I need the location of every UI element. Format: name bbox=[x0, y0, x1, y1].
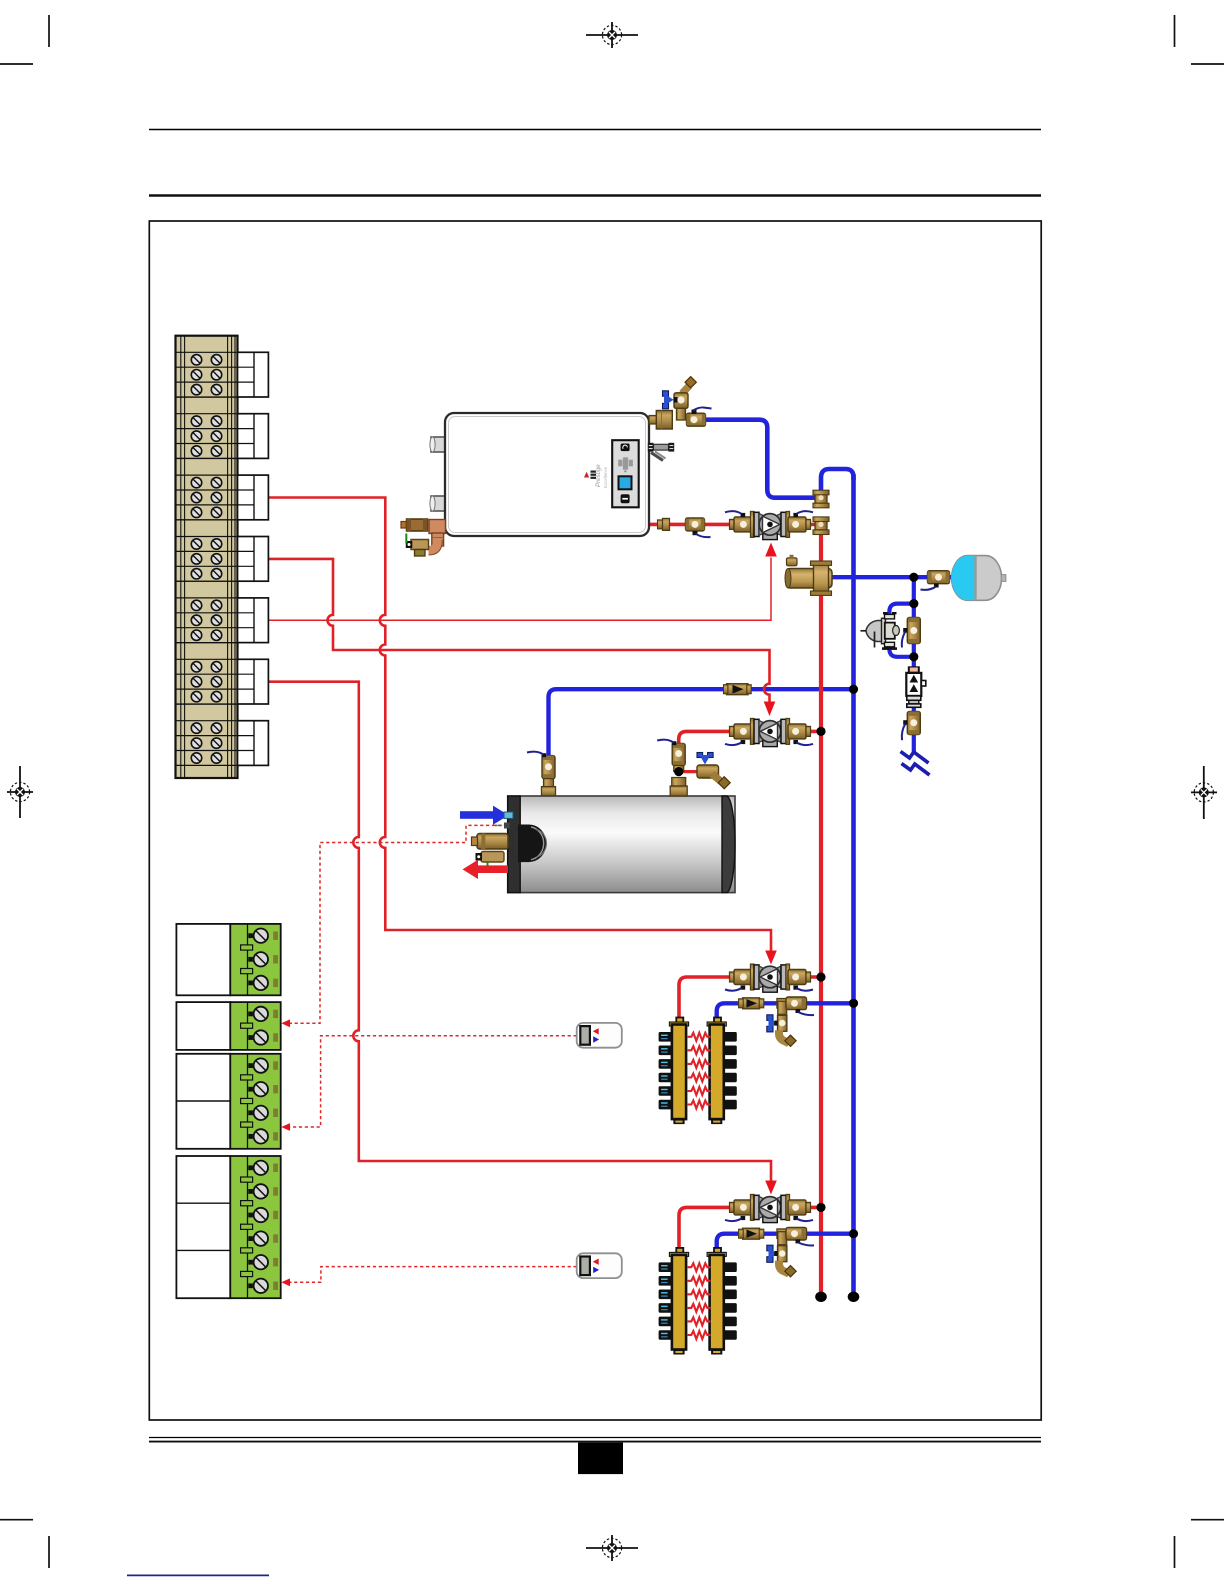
wire control C: zone panel group5 to boiler pump P1 bbox=[268, 558, 771, 621]
wire blue cold main vertical bbox=[851, 474, 856, 1292]
thermostat T1 bbox=[577, 1023, 622, 1048]
pump P4 right isolation valve bbox=[788, 1200, 813, 1221]
zone panel terminal group 2 rows bbox=[176, 397, 238, 458]
tank aquastat sensor fitting bbox=[495, 823, 510, 829]
zone 2 return check valve bbox=[739, 1228, 764, 1239]
zone panel group 5 wiring connector box bbox=[238, 598, 269, 643]
wire blue pipe: cold main to indirect tank inlet bbox=[549, 689, 854, 757]
wire blue pipe: air separator to expansion tank bbox=[832, 575, 951, 579]
footer thin rule bbox=[149, 1437, 1041, 1439]
wire control D: zone panel group6 to zone2 pump P4 bbox=[268, 682, 771, 1182]
tank inspection port dome bbox=[518, 825, 547, 863]
wire control A: zone panel group3 to zone1 pump P3 bbox=[268, 498, 771, 952]
fill line ball valve upper bbox=[902, 618, 920, 648]
boiler left stub pipe upper bbox=[430, 437, 447, 452]
zone 2 radiant return manifold bbox=[707, 1248, 737, 1355]
wire blue pipe: riser hump from tee A to cold main bbox=[821, 469, 854, 498]
crop mark top-left horizontal bbox=[0, 63, 33, 65]
wire blue pipe: boiler DHW top outlet to tee A bbox=[705, 420, 821, 498]
boiler supply union bbox=[658, 518, 670, 530]
boiler left stub pipe lower bbox=[430, 496, 447, 511]
crop mark bottom-left vertical bbox=[48, 1536, 50, 1568]
wire blue zone1 return from manifold to cold main bbox=[717, 1003, 854, 1020]
tank boiler drain faucet bbox=[697, 753, 730, 789]
indirect water heater tank bbox=[508, 796, 735, 893]
main diagram border box bbox=[149, 221, 1041, 1420]
thermostat wiring terminal block 1 white box bbox=[176, 924, 230, 995]
arrow into boiler pump P1 bbox=[765, 543, 777, 557]
zone panel terminal group 6 rows bbox=[176, 643, 238, 704]
wire red pump P2 inlet piping from tank hot port bbox=[679, 731, 737, 744]
node: fill bypass lower tee bbox=[909, 652, 918, 661]
backflow preventer bbox=[906, 666, 926, 707]
wire red boiler supply from boiler to pump P1 bbox=[649, 523, 754, 527]
footer navy rule bottom-left bbox=[127, 1574, 269, 1576]
thermostat wiring terminal block 3 white box bbox=[176, 1054, 230, 1149]
wire dashed: thermostat T2 to zone panel bbox=[290, 1267, 577, 1283]
thermostat wiring terminal block 2 white box bbox=[176, 1002, 230, 1050]
boiler gas connection pipe bbox=[648, 443, 674, 461]
zone 1 radiant supply manifold bbox=[659, 1018, 689, 1125]
header thick rule bbox=[149, 194, 1041, 197]
zone 2 radiant supply manifold bbox=[659, 1248, 689, 1355]
thermostat T2 bbox=[577, 1253, 622, 1278]
zone 2 purge drain valve bbox=[767, 1245, 796, 1277]
wire red tank drain stub bbox=[679, 770, 700, 773]
pump P1 circulator body bbox=[750, 511, 789, 539]
thermostat wiring terminal block 2 green connector bbox=[230, 1002, 280, 1050]
crop mark bottom-left horizontal bbox=[0, 1519, 33, 1521]
zone panel terminal group 4 rows bbox=[176, 520, 238, 581]
svg-text:Prestige: Prestige bbox=[595, 464, 602, 487]
tank drain valve bbox=[476, 852, 505, 871]
wire control B: zone panel group4 to DHW pump P2 bbox=[268, 559, 769, 703]
node: tank hot port drain tee bbox=[674, 767, 683, 776]
arrow into zone2 terminal block bbox=[281, 1278, 290, 1286]
node: cold main to zone1 return bbox=[849, 999, 858, 1008]
wire blue pipe: fill line down from expansion tee bbox=[912, 577, 916, 752]
cold main end cap bbox=[848, 1292, 860, 1302]
zone 1 return ball valve with purge tee bbox=[777, 997, 814, 1015]
registration mark bottom-center bbox=[586, 1535, 638, 1561]
tank hot water outlet arrow bbox=[463, 860, 509, 879]
crop mark top-right horizontal bbox=[1191, 63, 1224, 65]
footer black page-number block bbox=[578, 1443, 623, 1475]
zone panel terminal group 5 rows bbox=[176, 581, 238, 642]
arrow into DHW pump P2 bbox=[764, 702, 776, 717]
zone 2 radiant loops bbox=[687, 1263, 711, 1339]
arrow into zone1 pump P3 bbox=[765, 951, 777, 965]
tank side aquastat well bbox=[472, 834, 509, 850]
boiler top ball valve with lever bbox=[687, 407, 712, 426]
zone 2 return ball valve with purge tee bbox=[777, 1227, 814, 1245]
arrow into zone2 pump P4 bbox=[765, 1181, 777, 1195]
zone 1 radiant return manifold bbox=[707, 1018, 737, 1125]
zone control panel terminal strip body bbox=[176, 336, 238, 778]
pump P1 left isolation valve bbox=[725, 511, 752, 532]
pump P4 circulator body bbox=[750, 1194, 789, 1222]
pump P3 left isolation valve bbox=[725, 970, 752, 991]
wire red pump P2 outlet to hot main bbox=[786, 730, 821, 734]
tee A boiler return tee bbox=[813, 490, 829, 508]
boiler relief riser with valve and 45-degree vent cap bbox=[663, 377, 697, 420]
tank cold inlet ball valve bbox=[527, 752, 556, 796]
zone panel group 2 wiring connector box bbox=[238, 414, 269, 459]
thermostat wiring terminal block 4 green connector bbox=[230, 1156, 280, 1298]
tank cold water inlet arrow bbox=[460, 806, 513, 825]
zone panel group 1 wiring connector box bbox=[238, 352, 269, 397]
wire red hot supply main vertical bbox=[819, 524, 823, 1292]
node: expansion line tee bbox=[909, 573, 918, 582]
wire blue pipe: fill valve bypass loop upper bbox=[889, 604, 913, 617]
pump P2 left isolation valve bbox=[725, 724, 752, 745]
zone 1 radiant loops bbox=[687, 1033, 711, 1109]
footer thick rule bbox=[149, 1441, 1041, 1443]
zone 1 return check valve bbox=[739, 998, 764, 1009]
cold feed continuation break symbol bbox=[901, 752, 930, 776]
check valve on tank cold feed bbox=[724, 684, 752, 695]
boiler body bbox=[445, 413, 649, 536]
crop mark top-left vertical bbox=[48, 15, 50, 47]
zone panel group 3 wiring connector box bbox=[238, 475, 269, 520]
fill line ball valve lower bbox=[902, 712, 920, 741]
expansion tank bbox=[952, 556, 1006, 601]
tank hot port ball valve to pump P2 bbox=[657, 740, 687, 796]
node: hot main to pump P2 outlet bbox=[816, 727, 825, 736]
pump P3 circulator body bbox=[750, 964, 789, 992]
pressure reducing fill valve bbox=[861, 613, 900, 648]
registration mark right bbox=[1191, 766, 1217, 819]
header thin rule bbox=[149, 129, 1041, 131]
wire blue pipe: fill valve bypass loop lower bbox=[889, 645, 913, 657]
wire red zone1 pump P3 outlet to hot main bbox=[787, 975, 821, 979]
pump P2 circulator body bbox=[750, 718, 789, 746]
expansion tank isolation valve bbox=[921, 571, 950, 590]
node: hot main to pump P4 outlet bbox=[816, 1203, 825, 1212]
zone panel terminal group 1 rows bbox=[176, 336, 238, 397]
boiler top outlet union bbox=[649, 416, 658, 425]
boiler control panel bbox=[612, 440, 639, 507]
wire red zone2 pump P4 inlet piping to manifold supply bbox=[679, 1207, 753, 1250]
thermostat wiring terminal block 3 green connector bbox=[230, 1054, 280, 1149]
zone panel terminal group 7 rows bbox=[176, 704, 238, 765]
pump P2 right isolation valve bbox=[788, 724, 813, 745]
node: cold main to zone2 return bbox=[849, 1229, 858, 1238]
wire red zone1 pump P3 inlet piping to manifold supply bbox=[679, 977, 753, 1020]
tee B boiler supply tee bbox=[813, 517, 829, 535]
zone 1 purge drain valve bbox=[767, 1015, 796, 1047]
registration mark top-center bbox=[586, 22, 638, 48]
zone panel group 6 wiring connector box bbox=[238, 659, 269, 704]
hot main end cap bbox=[815, 1292, 827, 1302]
node: fill bypass upper tee bbox=[909, 599, 918, 608]
zone panel group 4 wiring connector box bbox=[238, 537, 269, 582]
air separator bbox=[785, 555, 832, 596]
pump P1 right isolation valve bbox=[788, 511, 813, 532]
boiler pressure relief valve assembly bbox=[401, 519, 446, 556]
arrow into zone1 terminal block bbox=[281, 1123, 290, 1131]
boiler brand logo bbox=[584, 464, 608, 488]
thermostat wiring terminal block 4 white box bbox=[176, 1156, 230, 1298]
crop mark bottom-right vertical bbox=[1174, 1536, 1176, 1568]
wire blue zone2 return from manifold to cold main bbox=[717, 1234, 854, 1250]
thermostat wiring terminal block 1 green connector bbox=[230, 924, 280, 995]
svg-text:Excellence: Excellence bbox=[603, 466, 608, 488]
pump P4 left isolation valve bbox=[725, 1200, 752, 1221]
registration mark left bbox=[7, 766, 33, 818]
arrow into DHW terminal block bbox=[281, 1019, 290, 1027]
wire red zone2 pump P4 outlet to hot main bbox=[787, 1206, 821, 1210]
boiler supply ball valve with lever bbox=[686, 518, 711, 537]
crop mark top-right vertical bbox=[1174, 15, 1176, 47]
wire red pump P1 outlet to tee B bbox=[786, 523, 821, 527]
node: cold main to tank feed bbox=[849, 685, 858, 694]
wire dashed: thermostat T1 to zone panel bbox=[290, 1036, 577, 1127]
node: hot main to pump P3 outlet bbox=[816, 972, 825, 981]
wire dashed: tank aquastat to zone panel DHW terminal bbox=[290, 825, 507, 1023]
zone panel terminal group 3 rows bbox=[176, 459, 238, 520]
crop mark bottom-right horizontal bbox=[1191, 1519, 1224, 1521]
zone panel group 7 wiring connector box bbox=[238, 721, 269, 766]
boiler top outlet tee fitting bbox=[656, 411, 672, 430]
pump P3 right isolation valve bbox=[788, 970, 813, 991]
